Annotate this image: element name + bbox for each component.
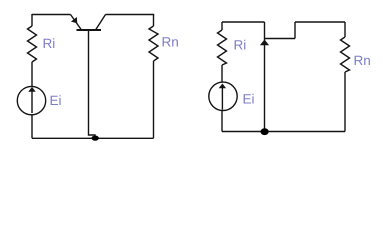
transistor Q1 base lead down to node — [89, 30, 96, 138]
resistor R4 Ri (right circuit) — [218, 30, 227, 65]
wire: right circuit step vertical — [294, 22, 296, 39]
transistor Q1 (PNP, base down) — [71, 15, 106, 139]
wire: right circuit between Ri and source — [221, 65, 223, 82]
wire: right circuit top-left horizontal — [222, 21, 265, 23]
wire: right circuit bottom horizontal — [222, 131, 345, 133]
svg-text:Ei: Ei — [243, 92, 255, 107]
svg-text:Rn: Rn — [354, 53, 371, 68]
wire: right circuit middle vertical — [264, 22, 266, 132]
current source Ei (right circuit) — [209, 82, 237, 110]
current direction arrowhead on middle vertical — [260, 40, 269, 46]
transistor Q1 base bar — [77, 29, 102, 31]
wire: left circuit bottom horizontal — [32, 137, 154, 139]
wire: right circuit top-right horizontal — [295, 21, 345, 23]
wire: left circuit between Ri and source — [31, 62, 33, 86]
transistor Q1 emitter lead — [71, 15, 82, 31]
wire: right circuit branch from middle vertical — [265, 38, 296, 40]
wire: left circuit top-left horizontal (to emitter) — [32, 14, 71, 16]
svg-text:Rn: Rn — [162, 35, 179, 50]
wire: left circuit right vertical below Rn — [153, 61, 155, 138]
wire: right circuit below source to bottom — [221, 111, 223, 132]
wire: left circuit right vertical stub above Rn — [153, 15, 155, 27]
svg-text:Ri: Ri — [234, 38, 247, 53]
node: right circuit bottom junction dot — [261, 128, 269, 135]
resistor R3 Rn (right circuit) — [341, 37, 350, 72]
resistor R2 Rn (left circuit) — [149, 26, 158, 61]
svg-text:Ei: Ei — [50, 93, 62, 108]
current source Ei (left circuit) — [17, 86, 45, 114]
resistor R1 Ri (left circuit) — [28, 26, 37, 62]
wire: right circuit left vertical stub above Ri — [221, 22, 223, 30]
svg-text:Ri: Ri — [43, 36, 56, 51]
wire: right circuit right vertical below Rn — [344, 72, 346, 132]
wire: left circuit below source to bottom — [31, 115, 33, 138]
wire: right circuit right vertical stub above Rn — [344, 22, 346, 37]
transistor Q1 collector lead — [96, 15, 106, 31]
wire: left circuit left vertical stub above Ri — [31, 14, 33, 26]
node: left circuit bottom junction dot — [92, 136, 99, 141]
wire: left circuit top-right horizontal (collector to Rn) — [106, 14, 155, 16]
transistor Q1 emitter arrowhead — [71, 17, 77, 23]
